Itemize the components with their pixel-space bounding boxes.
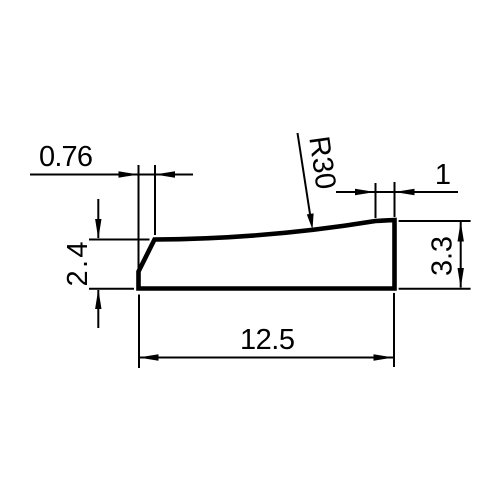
- svg-text:3.3: 3.3: [427, 236, 459, 276]
- svg-text:2.4: 2.4: [62, 242, 94, 287]
- dimension 1 extension line right: [394, 182, 396, 217]
- dimension 2.4 dim line upper: [97, 199, 99, 238]
- dimension 0.76 arrow left: [119, 171, 139, 177]
- svg-text:0.76: 0.76: [39, 141, 93, 173]
- dimension 3.3 arrow top: [458, 222, 464, 242]
- dimension 12.5 extension line right: [393, 293, 395, 367]
- dimension 2.4 dim line lower: [97, 290, 99, 328]
- dimension 0.76 arrow right: [155, 171, 175, 177]
- dimension 3.3 dim line: [460, 222, 462, 288]
- dimension 12.5 arrow right: [374, 354, 394, 360]
- dimension 2.4 extension line top: [89, 239, 150, 241]
- dimension 12.5 dim line: [139, 357, 394, 359]
- dimension 3.3 extension line top: [399, 220, 471, 222]
- dimension 3.3 text: [427, 236, 459, 276]
- dimension 12.5 text: [240, 324, 295, 356]
- dimension 12.5 arrow left: [139, 354, 159, 360]
- dimension 2.4 arrow top: [95, 219, 101, 239]
- dimension 2.4 arrow bottom: [95, 289, 101, 309]
- radius leader R30 line: [298, 133, 311, 216]
- profile outline: [139, 220, 395, 289]
- svg-text:1: 1: [435, 159, 451, 191]
- dimension 1 arrow right: [395, 189, 415, 195]
- dimension 0.76 extension line right: [154, 165, 156, 235]
- dimension 0.76 text: [39, 141, 93, 173]
- dimension 3.3 arrow bottom: [458, 268, 464, 288]
- svg-text:12.5: 12.5: [240, 324, 295, 356]
- dimension 1 extension line left: [375, 183, 377, 218]
- dimension 2.4 extension line bottom: [89, 288, 134, 290]
- radius leader R30 arrow: [307, 213, 314, 229]
- dimension 2.4 text: [62, 242, 94, 287]
- dimension 1 arrow left: [355, 189, 375, 195]
- dimension 0.76 dim line: [30, 174, 193, 176]
- dimension 1 dim line: [336, 191, 458, 193]
- radius leader R30 text: [302, 134, 341, 191]
- dimension 1 text: [435, 159, 451, 191]
- dimension 3.3 extension line bottom: [399, 288, 471, 290]
- dimension 12.5 extension line left: [138, 295, 140, 369]
- dimension 0.76 extension line left: [138, 165, 140, 272]
